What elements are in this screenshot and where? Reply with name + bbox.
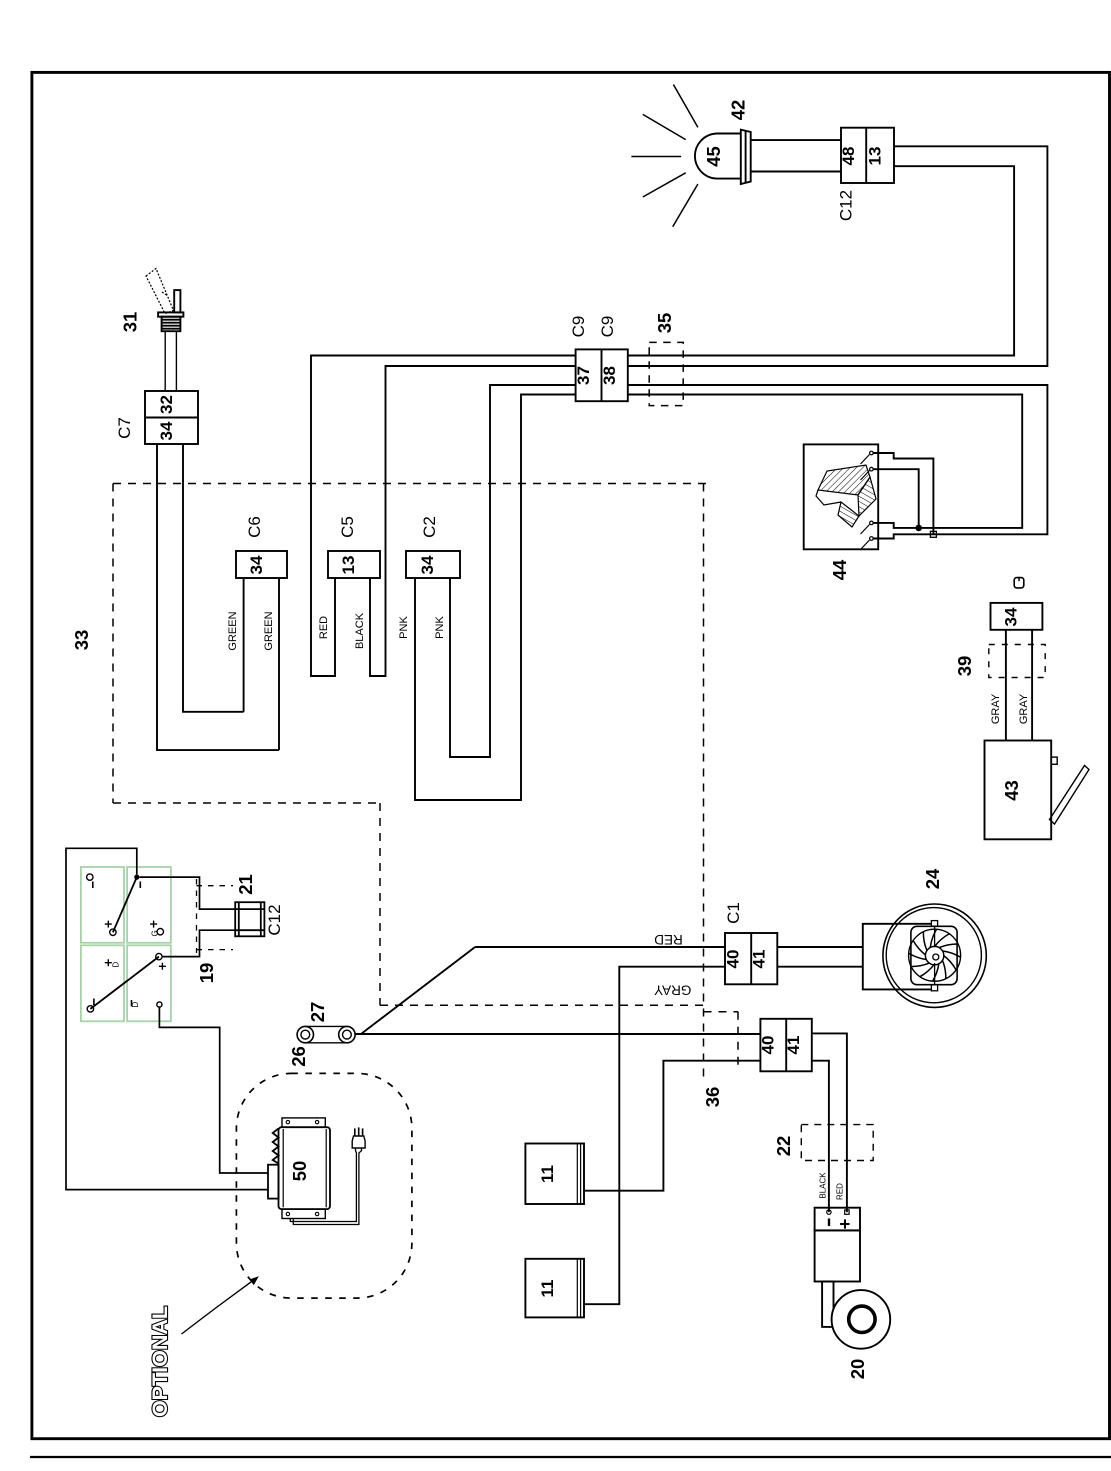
- G_BATT19: [66, 848, 284, 1189]
- wire C6 pin left: [243, 578, 245, 712]
- component 44 box: [804, 444, 879, 549]
- terminal A minus: [87, 874, 93, 880]
- wire switch stems: [164, 331, 166, 391]
- AC plug: [352, 1136, 365, 1148]
- jumper top: [113, 877, 137, 932]
- switch 31 threaded bushing: [162, 317, 181, 332]
- G_HARNESS33: [71, 356, 738, 1108]
- dashed 21 boundary: [197, 879, 234, 953]
- G_LAMP: [631, 85, 894, 227]
- switch 31 collar: [158, 312, 183, 316]
- svg-text:50: 50: [289, 1161, 310, 1182]
- motor 11 upper: [525, 1144, 584, 1205]
- svg-text:36: 36: [702, 1087, 723, 1108]
- wire RED from fuse: [475, 946, 725, 948]
- G_CONN3738: [569, 146, 1047, 405]
- lamp ray 1: [673, 85, 698, 128]
- dashed harness boundary 33: [113, 484, 738, 1082]
- wire pin3 to 37/38: [628, 395, 1022, 528]
- charger 50 body: [279, 1127, 331, 1209]
- svg-text:C9: C9: [598, 316, 617, 338]
- svg-text:GRAY: GRAY: [1018, 693, 1030, 724]
- svg-text:D: D: [112, 962, 121, 968]
- junction dot: [915, 525, 922, 532]
- svg-text:27: 27: [307, 1002, 328, 1023]
- switch 31 lever pin: [174, 290, 180, 312]
- wire 37 to lamp inner: [628, 166, 1014, 355]
- svg-text:RED: RED: [836, 1183, 845, 1200]
- jumper bottom: [90, 957, 158, 1009]
- terminal C plus D: [105, 959, 112, 966]
- svg-text:RED: RED: [318, 616, 330, 639]
- connector 36 box 40/41: [760, 1019, 811, 1072]
- svg-text:C7: C7: [115, 417, 134, 439]
- wire 36-41 to battery minus: [812, 1061, 829, 1212]
- svg-text:BLACK: BLACK: [354, 612, 366, 649]
- svg-text:D: D: [131, 1002, 140, 1008]
- svg-text:C12: C12: [265, 904, 284, 935]
- svg-text:C6: C6: [245, 516, 264, 538]
- pin contacts: [870, 451, 874, 455]
- terminal A plus: [105, 921, 112, 928]
- 43 side tab: [1051, 757, 1057, 764]
- connector 37/38 box: [576, 349, 628, 401]
- terminal B plus G: [150, 921, 157, 928]
- wire C2 pin PNK left: [415, 395, 576, 801]
- svg-text:19: 19: [196, 963, 217, 984]
- wire D minus main: [159, 1007, 268, 1173]
- lamp ray 3: [631, 156, 681, 158]
- lamp flange: [741, 130, 751, 184]
- impeller frame: [911, 926, 957, 984]
- svg-text:44: 44: [829, 559, 850, 580]
- battery 19 green cells: [81, 867, 171, 1021]
- connector 48/13 box: [841, 128, 894, 183]
- connector C5 box 13: [328, 551, 380, 578]
- wire 36-41 to motor 11: [584, 1061, 760, 1191]
- wire pin4 to 37/38: [628, 385, 1048, 539]
- G_RIGHT39: [954, 578, 1089, 840]
- connector 39 box 34: [991, 603, 1043, 630]
- svg-text:21: 21: [235, 874, 256, 895]
- G_SWITCH: [115, 269, 279, 751]
- svg-text:C12: C12: [837, 190, 856, 221]
- terminal B minus junction: [134, 875, 139, 880]
- svg-text:OPTIONAL: OPTIONAL: [148, 1306, 172, 1417]
- svg-text:GREEN: GREEN: [263, 611, 275, 650]
- svg-text:41: 41: [784, 1036, 803, 1055]
- wire pin2: [873, 469, 919, 528]
- svg-text:37: 37: [574, 366, 593, 385]
- svg-text:40: 40: [759, 1036, 778, 1055]
- svg-text:C9: C9: [569, 316, 588, 338]
- motor 11 lower: [525, 1259, 584, 1318]
- terminal D plus: [156, 953, 162, 959]
- junction square: [930, 531, 936, 537]
- svg-text:C1: C1: [724, 902, 743, 924]
- connector C1 box 40/41: [725, 933, 777, 984]
- lamp 45 dome: [695, 134, 741, 179]
- svg-text:11: 11: [538, 1165, 557, 1183]
- wire C1 to motor top: [777, 946, 863, 948]
- svg-text:RED: RED: [654, 932, 683, 947]
- svg-text:42: 42: [728, 100, 749, 121]
- lamp ray 4: [643, 173, 686, 197]
- component 43 box: [985, 741, 1052, 840]
- wire D plus to 21: [162, 930, 235, 956]
- svg-text:PNK: PNK: [434, 616, 446, 639]
- wire C6 pin right: [278, 578, 280, 750]
- svg-text:11: 11: [538, 1280, 557, 1298]
- svg-text:PNK: PNK: [398, 616, 410, 639]
- svg-text:41: 41: [750, 950, 769, 969]
- wire GRAY left: [1005, 630, 1007, 741]
- svg-text:24: 24: [922, 868, 943, 889]
- wire fuse to 36-40: [355, 1033, 760, 1035]
- svg-text:38: 38: [600, 366, 619, 385]
- fuse 26/27: [297, 1026, 313, 1042]
- svg-text:GREEN: GREEN: [227, 611, 239, 650]
- fan hub: [925, 946, 943, 964]
- G_CHARGER: [148, 1073, 412, 1417]
- battery 20 body: [815, 1230, 860, 1281]
- wire C7 pin34 right: [183, 444, 244, 712]
- svg-text:GRAY: GRAY: [654, 983, 691, 998]
- wire C2 pin PNK right: [450, 385, 576, 757]
- dashed box 39: [989, 645, 1045, 678]
- wire 38 to lamp outer: [628, 146, 1048, 366]
- svg-text:48: 48: [839, 147, 858, 166]
- svg-text:35: 35: [654, 313, 675, 334]
- svg-text:34: 34: [157, 421, 176, 440]
- G_MOTOR24: [475, 868, 986, 1304]
- stud mark D: [1014, 578, 1024, 588]
- wire B minus to 21: [140, 877, 236, 909]
- wire pin1: [873, 453, 933, 534]
- top plate: [282, 1118, 325, 1127]
- motor yoke: [863, 924, 931, 990]
- footer rule: [30, 1456, 1111, 1458]
- svg-text:31: 31: [120, 312, 141, 333]
- wire 36-40 to battery plus: [812, 1033, 847, 1212]
- wire C1 to motor bottom: [777, 966, 863, 968]
- svg-text:34: 34: [247, 555, 266, 574]
- motor tabs: [931, 921, 937, 927]
- wheel 20: [832, 1290, 891, 1349]
- fan blades: [908, 929, 960, 981]
- wire GRAY right: [1031, 630, 1033, 741]
- connector 21 C12 plug: [235, 902, 264, 936]
- terminal C minus: [93, 999, 95, 1006]
- svg-text:40: 40: [724, 950, 743, 969]
- lamp ray 2: [643, 114, 686, 139]
- wire B minus to charger: [66, 848, 268, 1189]
- svg-text:39: 39: [954, 656, 975, 677]
- bracket: [822, 1282, 833, 1327]
- svg-text:34: 34: [418, 555, 437, 574]
- connector C7 box 32/34: [145, 391, 198, 444]
- svg-text:43: 43: [1001, 780, 1022, 801]
- svg-text:13: 13: [339, 556, 358, 575]
- G_CONN36: [288, 947, 890, 1379]
- wire C5 pin BLACK: [370, 366, 576, 676]
- dashed box 22: [801, 1125, 873, 1161]
- fan rim: [909, 929, 961, 981]
- OPTIONAL leader arrow: [182, 1278, 257, 1334]
- svg-text:C5: C5: [338, 516, 357, 538]
- switch 31 bat handle (dotted): [146, 269, 174, 314]
- bottom plate: [282, 1209, 325, 1218]
- svg-text:GRAY: GRAY: [990, 693, 1002, 724]
- input tab: [268, 1165, 279, 1199]
- 43 lever: [1050, 766, 1090, 825]
- svg-text:22: 22: [773, 1136, 794, 1157]
- svg-text:34: 34: [1002, 607, 1021, 626]
- battery 20 terminal strip: [815, 1208, 860, 1231]
- motor 24 outer circles: [883, 904, 986, 1007]
- svg-text:26: 26: [288, 1046, 309, 1067]
- lamp ray 5: [673, 184, 698, 227]
- G_BOXES11: [525, 1144, 584, 1318]
- svg-text:BLACK: BLACK: [819, 1172, 828, 1199]
- svg-text:33: 33: [71, 630, 92, 651]
- heatsink zigzag: [273, 1128, 279, 1163]
- svg-text:13: 13: [866, 147, 885, 166]
- G_COMP44: [628, 385, 1048, 580]
- wire C5 pin RED: [311, 356, 576, 677]
- wire fuse diagonal to RED: [361, 947, 475, 1034]
- label OPTIONAL: [148, 1306, 172, 1417]
- svg-text:20: 20: [847, 1359, 868, 1380]
- connector C2 box 34: [406, 551, 460, 578]
- lamp neck: [751, 139, 841, 141]
- svg-text:45: 45: [703, 146, 724, 167]
- optional dashed blob: [236, 1073, 412, 1298]
- wire C7 pin34 left: [157, 444, 279, 750]
- connector C6 box 34: [236, 551, 287, 578]
- pedal drawing: [816, 465, 876, 527]
- svg-text:32: 32: [157, 395, 176, 414]
- dashed box 35: [649, 342, 683, 405]
- svg-text:+: +: [834, 1218, 855, 1229]
- wire GRAY to lower motor: [584, 967, 725, 1304]
- svg-text:C2: C2: [420, 516, 439, 538]
